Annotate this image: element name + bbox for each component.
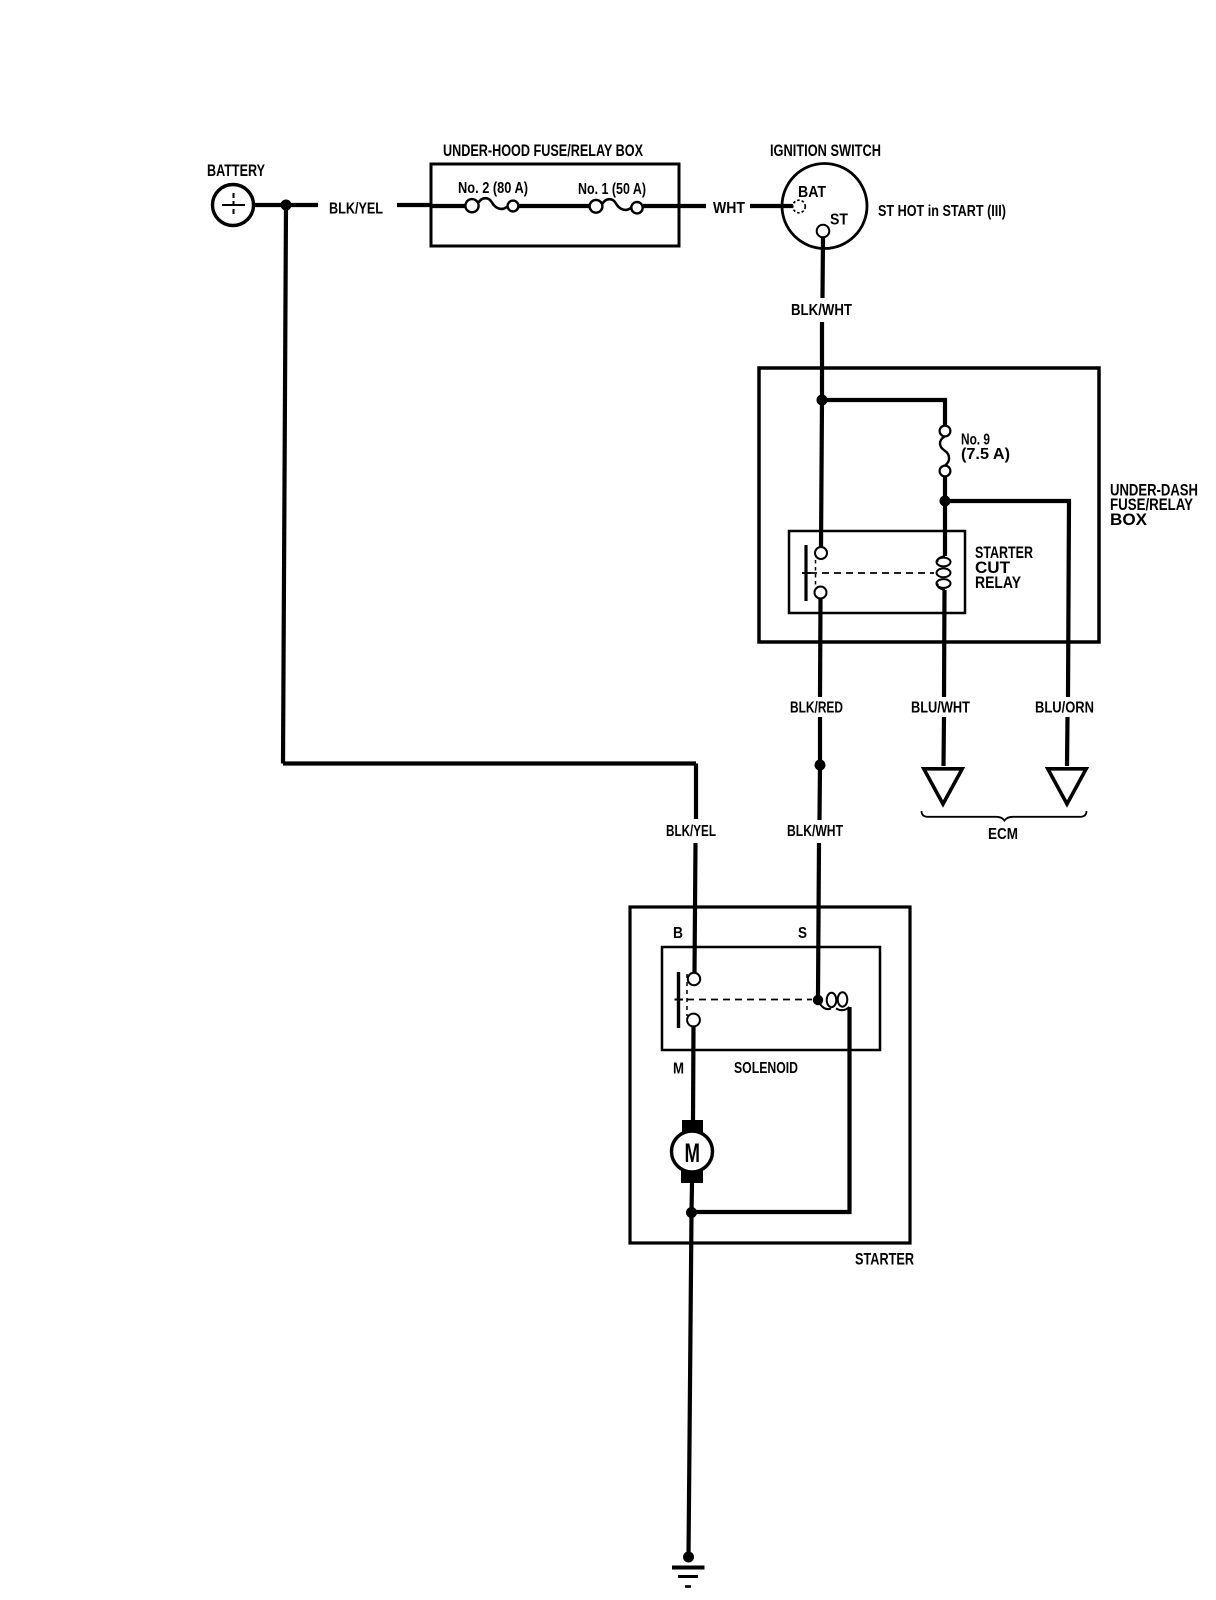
svg-text:STARTER: STARTER <box>855 1250 914 1269</box>
wire junction to BLU/ORN branch <box>945 501 1069 697</box>
svg-text:BOX: BOX <box>1110 510 1148 529</box>
svg-text:IGNITION SWITCH: IGNITION SWITCH <box>770 141 881 160</box>
svg-text:BLU/ORN: BLU/ORN <box>1035 700 1094 717</box>
svg-text:B: B <box>673 925 683 942</box>
wire fuse 9 to junction <box>943 476 947 501</box>
wire fuse box to WHT <box>643 204 706 208</box>
svg-text:SOLENOID: SOLENOID <box>734 1060 798 1077</box>
svg-text:WHT: WHT <box>713 200 745 217</box>
svg-text:BLK/YEL: BLK/YEL <box>666 823 716 840</box>
node junction motor bottom <box>686 1207 697 1218</box>
svg-text:BAT: BAT <box>798 184 826 201</box>
svg-text:UNDER-HOOD FUSE/RELAY BOX: UNDER-HOOD FUSE/RELAY BOX <box>443 141 643 160</box>
ECM connector arrow BLU/WHT <box>924 769 962 804</box>
fuse No.9 (7.5 A) <box>940 426 951 477</box>
wire between fuses <box>519 204 590 208</box>
wire battery to junction <box>253 203 318 207</box>
wire junction to BLK/WHT label <box>817 765 822 820</box>
ignition switch SW1 <box>782 164 867 249</box>
svg-text:BLU/WHT: BLU/WHT <box>911 700 970 717</box>
wire BLU/WHT to ECM <box>941 717 946 766</box>
node junction solenoid coil <box>813 995 823 1005</box>
wire ST down <box>820 238 825 299</box>
solenoid dashed link <box>687 999 812 1001</box>
svg-text:BLK/WHT: BLK/WHT <box>787 823 843 840</box>
solenoid contact pins <box>688 973 700 985</box>
svg-text:RELAY: RELAY <box>975 573 1022 592</box>
relay armature bar <box>804 545 807 601</box>
wire into fuse No.2 <box>431 204 466 208</box>
wire down to BLK/YEL label <box>694 764 698 820</box>
starter cut relay K1 <box>789 531 965 613</box>
wire relay contact down <box>818 598 823 697</box>
svg-text:S: S <box>798 925 807 942</box>
svg-text:BATTERY: BATTERY <box>207 161 265 180</box>
ground G101 <box>672 1552 705 1587</box>
svg-text:BLK/YEL: BLK/YEL <box>329 201 383 218</box>
svg-text:ST HOT in START (III): ST HOT in START (III) <box>878 203 1006 220</box>
node junction battery <box>281 200 292 211</box>
ECM connector arrow BLU/ORN <box>1048 769 1086 804</box>
svg-text:No. 1 (50 A): No. 1 (50 A) <box>578 181 646 198</box>
svg-text:BLK/WHT: BLK/WHT <box>791 302 852 319</box>
under-hood fuse/relay box <box>431 164 679 246</box>
ECM brace <box>922 811 1087 821</box>
fuse No.2 (80 A) <box>465 198 518 212</box>
svg-text:ECM: ECM <box>988 826 1018 843</box>
wire BLU/ORN to ECM <box>1065 717 1070 766</box>
wire coil to box bottom <box>942 590 947 697</box>
wire M contact to motor <box>691 1027 696 1122</box>
wire BLK/RED to junction dot <box>818 717 822 765</box>
wire WHT to ignition switch <box>750 204 793 208</box>
relay contact pins <box>815 547 827 559</box>
wire coil to bottom loop <box>692 1007 850 1212</box>
solenoid coil <box>820 992 850 1010</box>
svg-text:M: M <box>685 1138 701 1168</box>
wire horizontal to starter branch <box>283 761 696 765</box>
left vertical wire BLK/YEL <box>283 205 286 764</box>
solenoid box <box>662 947 880 1050</box>
starter motor M1 <box>672 1120 713 1183</box>
wire motor to junction <box>689 1183 694 1213</box>
svg-text:No. 2 (80 A): No. 2 (80 A) <box>458 180 528 197</box>
label STARTER CUT RELAY <box>975 543 1033 592</box>
wire ST branch into relay contact <box>821 400 822 547</box>
node junction BLK/RED <box>815 760 826 771</box>
wire junction to fuse 9 <box>822 400 945 426</box>
relay coil <box>937 556 951 590</box>
battery B1 <box>213 185 254 226</box>
svg-text:ST: ST <box>830 212 848 229</box>
fuse No.1 (50 A) <box>590 199 643 213</box>
under-dash fuse/relay box <box>759 368 1099 642</box>
starter box <box>630 907 910 1243</box>
solenoid armature bar <box>677 972 680 1028</box>
wire junction to ground <box>689 1213 692 1558</box>
svg-text:(7.5 A): (7.5 A) <box>961 446 1010 463</box>
label UNDER-DASH FUSE/RELAY BOX <box>1110 481 1198 530</box>
node junction fuse9 bottom <box>940 496 951 507</box>
wire BLK/YEL to starter B <box>695 843 696 973</box>
wire BLK/WHT into under-dash box <box>820 322 824 400</box>
relay dashed link <box>810 572 934 574</box>
wire BLK/WHT to starter S <box>818 843 819 996</box>
wire BLK/YEL to fuse box <box>397 203 432 207</box>
wire junction to relay coil <box>943 501 947 556</box>
svg-text:BLK/RED: BLK/RED <box>790 700 843 717</box>
node junction under-dash top <box>817 395 828 406</box>
svg-text:M: M <box>673 1061 684 1078</box>
